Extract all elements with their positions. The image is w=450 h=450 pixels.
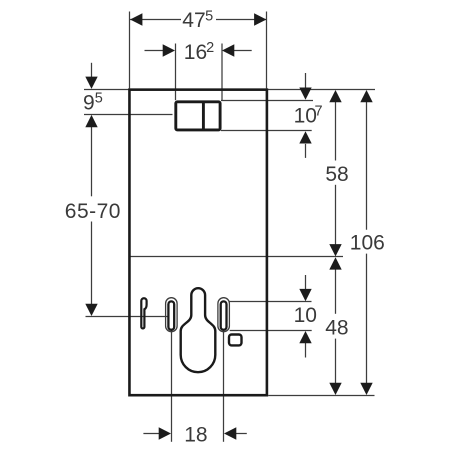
dimension line 47.5 right segment	[216, 19, 266, 21]
hanger slot left inner	[168, 301, 174, 329]
svg-text:18: 18	[184, 423, 207, 446]
flush plate	[176, 102, 220, 130]
arrowhead 58 down	[329, 244, 341, 256]
leader line 10 lower	[230, 330, 312, 332]
arrow shaft 65-70 upper	[91, 127, 93, 196]
arrowhead 18 right-pointing	[159, 427, 171, 439]
extension bar 18 right	[223, 332, 225, 442]
arrowhead 58 up	[329, 90, 341, 102]
outlet keyhole bottle	[181, 288, 216, 372]
leader line 10 upper	[230, 301, 312, 303]
dimension line 106 upper segment	[366, 102, 368, 230]
svg-text:10: 10	[294, 304, 317, 327]
arrowhead 10 down	[299, 289, 311, 301]
arrow shaft 9.5 top	[91, 63, 93, 77]
arrowheads	[85, 13, 372, 439]
hanger slot left outer	[166, 298, 178, 332]
water connection square	[229, 335, 242, 346]
arrowhead 10.7 up	[299, 131, 311, 143]
extension bar 18 left	[171, 330, 173, 442]
leader line 18 right	[236, 433, 247, 435]
dimension line 48 upper segment	[335, 270, 337, 314]
pan level interior line	[130, 256, 344, 258]
dimension line 58 upper segment	[335, 102, 337, 161]
hanger slot right outer	[218, 298, 230, 332]
extension line module top left	[84, 89, 130, 91]
dimension line 106 lower segment	[366, 254, 368, 383]
module outline	[129, 90, 266, 396]
arrowhead 106 up	[360, 90, 372, 102]
arrow shaft 10 upper	[305, 275, 307, 290]
arrow shaft 10.7 lower	[305, 144, 307, 158]
arrowhead 16.2 right	[222, 44, 234, 56]
arrow shaft 65-70 lower	[91, 222, 93, 305]
hanger slot right inner	[221, 301, 227, 329]
extension line plate top right	[221, 100, 313, 102]
arrowhead 10.7 down	[299, 88, 311, 100]
arrowhead 47.5 left	[130, 13, 142, 25]
svg-text:48: 48	[325, 317, 348, 340]
svg-text:65-70: 65-70	[65, 200, 121, 223]
dimension line 58 lower segment	[335, 185, 337, 245]
arrowhead 48 up	[329, 257, 341, 269]
arrow shaft 10.7 upper	[305, 73, 307, 88]
arrowhead 47.5 right	[254, 13, 266, 25]
extension line top-right vertical	[266, 12, 268, 89]
arrowhead 65-70 up	[85, 115, 97, 127]
extension line plate axis left	[84, 114, 173, 116]
arrowhead 65-70 down	[85, 304, 97, 316]
svg-text:106: 106	[350, 232, 385, 255]
extension line module bottom right	[268, 395, 374, 397]
leader line 16.2 left	[145, 50, 164, 52]
extension line plate bottom right	[221, 130, 312, 132]
leader line 16.2 right	[234, 50, 252, 52]
svg-text:58: 58	[325, 163, 348, 186]
leader line 18 left	[143, 433, 159, 435]
extension line module top right	[267, 89, 376, 91]
arrowhead 106 down	[360, 383, 372, 395]
dimension line 48 lower segment	[335, 339, 337, 383]
arrowhead 16.2 left	[163, 44, 175, 56]
arrowhead 48 down	[329, 383, 341, 395]
leader line 65-70 bottom	[86, 316, 169, 318]
flush plate divider	[202, 102, 205, 130]
extension bar 16.2 right	[221, 44, 223, 101]
extension bar 16.2 left	[175, 44, 177, 101]
small keyhole slot left	[141, 298, 146, 328]
dimension line 47.5 left segment	[130, 19, 181, 21]
arrow shaft 10 lower	[305, 343, 307, 358]
arrowhead 10 up	[299, 331, 311, 343]
arrowhead 9.5 down	[85, 77, 97, 89]
arrowhead 18 left-pointing	[224, 427, 236, 439]
extension line top-left vertical	[129, 12, 131, 89]
